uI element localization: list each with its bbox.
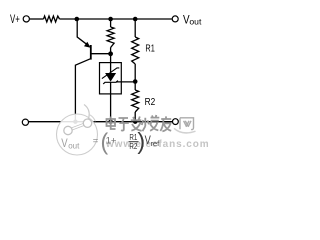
svg-text:V: V <box>61 138 68 150</box>
svg-text:ref: ref <box>151 139 161 148</box>
wire top rail left segment <box>30 18 44 20</box>
svg-text:out: out <box>189 17 202 27</box>
junction node base <box>108 51 113 56</box>
resistor R2 leads <box>134 82 136 91</box>
regulator U1 anode lead <box>110 83 112 122</box>
watermark logo circle <box>57 105 98 156</box>
junction node C <box>133 17 138 22</box>
char shao <box>142 115 160 131</box>
junction node A <box>75 17 80 22</box>
char dian <box>107 117 116 130</box>
regulator U1 cathode lead <box>110 63 112 73</box>
transistor Q1 emitter lead wire <box>77 19 89 46</box>
watermark link ring 1 <box>64 126 72 134</box>
adjustable diagonal <box>102 68 119 79</box>
svg-text:R1: R1 <box>145 44 155 55</box>
junction node gnd3 <box>133 120 137 124</box>
svg-text:1+: 1+ <box>106 135 117 146</box>
watermark link ring 2 <box>83 119 91 127</box>
junction node B <box>108 17 113 22</box>
regulator U1 box <box>100 63 122 94</box>
terminal bottom-left <box>22 119 28 125</box>
watermark faint swoosh right <box>174 128 196 133</box>
svg-text:R2: R2 <box>145 97 156 108</box>
char fa <box>131 117 142 131</box>
svg-text:=: = <box>93 136 99 147</box>
junction node gnd2 <box>108 120 112 124</box>
resistor series (horizontal) <box>44 16 60 22</box>
wire bottom rail <box>29 121 173 123</box>
transistor Q1 emitter arrow <box>84 42 91 48</box>
formula fraction bar <box>129 141 139 143</box>
watermark chinese text 电子发烧友 (vector strokes) <box>107 115 172 131</box>
watermark glyph wang <box>180 118 194 130</box>
junction node ref <box>133 79 138 84</box>
zener bar <box>103 81 118 84</box>
wire top rail right segment <box>60 18 172 20</box>
terminal V+ <box>23 16 29 22</box>
resistor R1 leads <box>134 19 136 37</box>
resistor R2 <box>132 90 139 112</box>
terminal bottom-right <box>173 119 179 125</box>
transistor Q1 collector lead wire <box>75 59 90 122</box>
char zi <box>119 118 129 131</box>
junction node gnd1 <box>73 120 77 124</box>
reference lead wire <box>116 81 135 83</box>
terminal Vout <box>172 16 178 22</box>
char you <box>160 116 171 131</box>
svg-text:V+: V+ <box>10 13 20 26</box>
svg-text:out: out <box>68 142 80 151</box>
zener triangle <box>105 73 116 82</box>
resistor R1 <box>132 37 139 64</box>
resistor bias (vertical, x=110.6) <box>110 19 112 27</box>
watermark swoosh <box>84 105 89 124</box>
transistor Q1 base lead wire <box>92 53 111 55</box>
transistor Q1 bar <box>90 45 92 60</box>
watermark link bar <box>70 124 87 130</box>
